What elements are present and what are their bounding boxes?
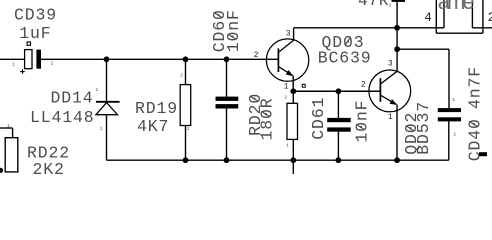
QD02 emitter diagonal with arrow: [380, 95, 396, 104]
QD02 base bar: [379, 78, 381, 102]
junction CD61 / base wire: [336, 88, 342, 94]
resistor RD22 body: [5, 138, 18, 172]
wire CD60 bottom lead: [226, 108, 228, 160]
wire node to DD14 cathode: [106, 59, 108, 101]
QD03 emitter diagonal with arrow: [278, 67, 292, 76]
connector bottom edge: [436, 32, 483, 34]
capacitor CD60 plates: [216, 97, 239, 101]
resistor 47R body bottom edge (cut off by image top): [392, 0, 406, 2]
svg-text:BC639: BC639: [318, 48, 372, 67]
wire DD14 anode down: [106, 115, 108, 161]
wire RD20 bottom lead: [292, 139, 294, 160]
svg-text:10nF: 10nF: [224, 9, 243, 52]
connector pin 4 stem: [443, 0, 445, 28]
junction top rail / RD19: [183, 56, 189, 62]
svg-text:2K2: 2K2: [33, 160, 65, 174]
clipped symbol fragment bottom right: [479, 152, 487, 156]
wire CD40 top lead: [448, 49, 450, 108]
label RD20 (vertical): [246, 93, 265, 136]
svg-text:4K7: 4K7: [137, 117, 169, 136]
svg-text:2: 2: [361, 81, 366, 90]
svg-text:ame: ame: [438, 0, 475, 14]
svg-text:2: 2: [389, 4, 392, 9]
wire QD03 collector up: [293, 28, 295, 40]
junction bottom rail / CD60: [224, 157, 230, 163]
QD02 collector diagonal: [380, 71, 397, 84]
wire node to CD40 branch: [397, 48, 449, 50]
capacitor CD39 plate1 (hollow): [25, 50, 32, 69]
svg-text:1uF: 1uF: [19, 24, 51, 43]
junction collector / CD40 branch: [394, 46, 400, 52]
QD03 emitter pad square: [302, 84, 305, 87]
svg-text:CD61: CD61: [309, 97, 328, 140]
wire CD61 bottom lead: [337, 132, 339, 161]
label QD02 (vertical): [402, 112, 421, 155]
connector left edge: [435, 0, 437, 33]
svg-text:47R: 47R: [358, 0, 389, 10]
junction bottom rail / RD20: [290, 157, 296, 163]
label 10nF of CD61 (vertical): [352, 100, 371, 143]
capacitor CD40 plates: [438, 108, 461, 112]
wire CD61 top lead: [337, 91, 339, 118]
wire RD22 top lead: [12, 128, 14, 138]
junction clipped at bottom left: [0, 168, 3, 173]
svg-text:1: 1: [286, 144, 289, 149]
label 180R (vertical): [258, 97, 277, 140]
wire RD19 top lead: [185, 59, 187, 84]
svg-text:1: 1: [388, 113, 393, 122]
svg-text:2: 2: [51, 62, 54, 67]
svg-text:2: 2: [96, 88, 99, 93]
QD03 collector diagonal: [278, 40, 293, 52]
connector pin 2 stub to edge: [472, 27, 492, 29]
junction bottom rail / QD02 emitter: [394, 157, 400, 163]
svg-text:3: 3: [388, 60, 393, 69]
junction bottom rail / RD19: [183, 157, 189, 163]
CD39 plus sign: [20, 71, 25, 73]
svg-text:1: 1: [100, 127, 103, 132]
label 10nF of CD60 (vertical): [224, 9, 243, 52]
junction bottom rail / CD61: [336, 157, 342, 163]
wire CD60 top lead: [226, 59, 228, 96]
capacitor CD39 plate2 (filled): [36, 50, 41, 69]
wire 47R lead / QD02 collector: [396, 2, 398, 72]
svg-text:2: 2: [284, 96, 287, 101]
capacitor CD61 plates: [327, 118, 351, 122]
svg-text:DD14: DD14: [51, 88, 94, 107]
wire bottom rail: [107, 159, 449, 161]
wire CD40 bottom lead: [448, 121, 450, 160]
svg-text:10nF: 10nF: [352, 100, 371, 143]
wire stub down from bottom rail: [292, 160, 294, 174]
transistor QD02 circle: [369, 70, 411, 112]
connector pin 4 stub: [436, 27, 444, 29]
wire QD03 emitter down: [292, 76, 294, 92]
diode DD14 cathode bar: [96, 101, 120, 103]
diode DD14 triangle: [96, 103, 118, 115]
wire top rail collector to connector: [294, 27, 437, 29]
svg-text:RD19: RD19: [135, 99, 178, 118]
svg-text:LL4148: LL4148: [30, 108, 95, 127]
svg-text:CD39: CD39: [14, 5, 57, 24]
svg-text:2: 2: [254, 51, 259, 60]
transistor QD03 circle: [266, 39, 308, 81]
svg-text:BD537: BD537: [414, 101, 433, 155]
svg-text:3: 3: [286, 30, 291, 39]
QD03 base bar: [277, 48, 279, 72]
CD39 pin marker square: [27, 42, 30, 45]
label 4n7F (vertical): [465, 66, 484, 109]
svg-text:1: 1: [452, 98, 455, 103]
svg-text:180R: 180R: [258, 97, 277, 140]
svg-text:2: 2: [488, 11, 492, 25]
svg-text:4: 4: [424, 11, 432, 25]
junction top rail / CD60: [224, 56, 230, 62]
svg-text:4n7F: 4n7F: [465, 66, 484, 109]
wire emitter node to QD02 base: [293, 90, 380, 92]
wire CD39 pin2 to QD03 base: [41, 58, 278, 60]
wire QD02 emitter down: [396, 105, 398, 161]
svg-text:2: 2: [180, 74, 183, 79]
svg-text:1: 1: [187, 127, 190, 132]
junction 47R / top rail: [394, 25, 400, 31]
wire left edge to CD39 pin1: [0, 58, 25, 60]
label CD61 (vertical): [309, 97, 328, 140]
junction QD03 emitter node: [290, 88, 296, 94]
resistor RD20 body: [287, 103, 298, 139]
wire RD20 top lead: [292, 91, 294, 103]
svg-text:2: 2: [453, 132, 456, 137]
wire RD19 bottom lead: [185, 126, 187, 161]
label CD60 (vertical): [210, 9, 229, 52]
junction top rail / DD14: [104, 56, 110, 62]
connector right edge: [482, 0, 484, 33]
wire left edge to RD22: [0, 127, 13, 129]
label BD537 (vertical): [414, 101, 433, 155]
svg-text:1: 1: [284, 83, 289, 92]
svg-text:1: 1: [7, 124, 10, 129]
connector pin 2 stem: [471, 0, 473, 28]
label CD40 (vertical): [465, 118, 484, 161]
resistor RD19 body: [180, 85, 191, 126]
svg-text:1: 1: [12, 63, 15, 68]
